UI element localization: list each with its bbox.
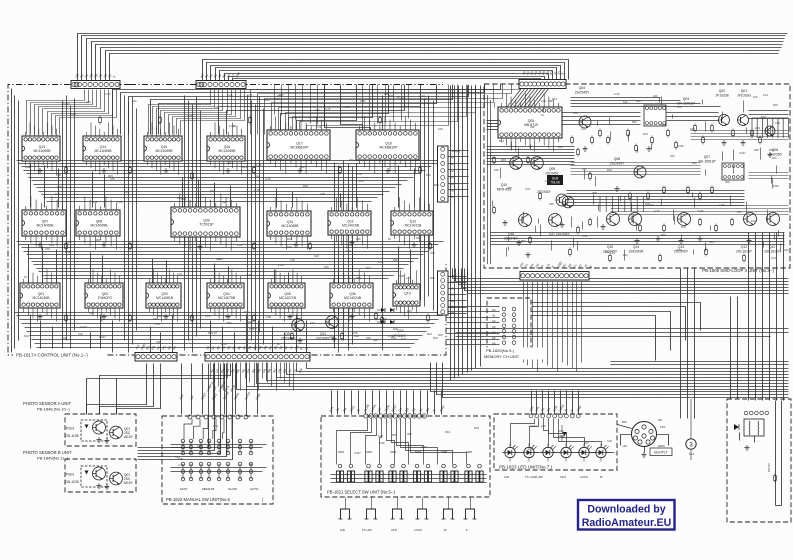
svg-text:C14: C14 [255, 174, 260, 178]
svg-text:RadioAmateur.EU: RadioAmateur.EU [582, 517, 671, 529]
svg-text:100: 100 [132, 99, 137, 103]
svg-text:SW1: SW1 [338, 450, 345, 454]
connector J05 control unit right B [438, 271, 449, 315]
svg-text:1815Y: 1815Y [124, 435, 134, 439]
svg-text:10K: 10K [494, 168, 499, 172]
svg-text:R07: R07 [389, 94, 394, 98]
svg-text:R19: R19 [433, 336, 438, 340]
svg-text:220: 220 [558, 145, 563, 149]
svg-text:4.7K: 4.7K [254, 188, 260, 192]
unit boundary PB-1817A control unit [8, 85, 446, 356]
LED D03 [543, 444, 556, 462]
svg-text:220: 220 [725, 180, 730, 184]
svg-text:R31: R31 [607, 168, 612, 172]
svg-text:220: 220 [359, 179, 364, 183]
svg-text:Q14: Q14 [633, 245, 639, 249]
svg-text:33P: 33P [549, 202, 554, 206]
svg-text:220: 220 [653, 94, 658, 98]
svg-text:+5V(M): +5V(M) [450, 149, 460, 153]
svg-text:PS01: PS01 [66, 473, 74, 477]
wire connector drops to row1 left ICs [27, 90, 245, 135]
IC Q10 MC14069B [267, 197, 311, 249]
IC Q11 MC14016B [328, 197, 371, 248]
svg-text:R19: R19 [210, 189, 215, 193]
transistor Q16 2SC945Y second [556, 194, 568, 206]
svg-text:47K: 47K [78, 332, 83, 336]
svg-text:2SK29GR: 2SK29GR [629, 250, 644, 254]
svg-text:PB-1823 LED UNIT(No.7 ): PB-1823 LED UNIT(No.7 ) [499, 465, 553, 470]
svg-text:C22: C22 [373, 338, 378, 342]
svg-text:R31: R31 [108, 174, 113, 178]
labels below LED unit [504, 475, 603, 479]
transistor Q13 2SC945Y [678, 213, 691, 226]
svg-text:MC14069B: MC14069B [219, 149, 237, 153]
svg-text:C09: C09 [71, 112, 76, 116]
svg-text:A0: A0 [492, 308, 496, 312]
wire stubs into row2 ICs [31, 164, 415, 208]
svg-text:MC14024B: MC14024B [344, 296, 362, 300]
pin labels connector J05 [450, 274, 455, 315]
svg-text:A2: A2 [450, 169, 454, 173]
connector pins memory unit column B [512, 307, 516, 344]
svg-text:47K: 47K [388, 334, 393, 338]
svg-text:C14: C14 [155, 322, 160, 326]
wire bundle below row3 [15, 313, 447, 348]
IC Q01 MC14049B [20, 269, 60, 321]
svg-text:A3: A3 [492, 325, 496, 329]
svg-text:FST: FST [660, 425, 666, 429]
svg-text:SW6: SW6 [466, 450, 473, 454]
svg-text:10K: 10K [57, 185, 62, 189]
svg-text:MC14071B: MC14071B [279, 296, 297, 300]
wire right accessory verticals [740, 401, 782, 506]
svg-text:1K: 1K [422, 94, 425, 98]
svg-text:2SC945Y: 2SC945Y [610, 162, 625, 166]
svg-text:100: 100 [310, 321, 315, 325]
svg-text:R07: R07 [773, 103, 778, 107]
svg-text:1815Y: 1815Y [124, 481, 134, 485]
resistor right accessory [774, 474, 777, 483]
svg-text:A9: A9 [450, 286, 454, 290]
svg-text:R12: R12 [24, 334, 29, 338]
svg-text:100: 100 [670, 154, 675, 158]
pin labels connector J04 [450, 149, 460, 199]
svg-text:1K: 1K [401, 96, 404, 100]
svg-text:R19: R19 [208, 331, 213, 335]
component value labels scatter [24, 92, 789, 467]
svg-text:A/R: A/R [504, 475, 509, 479]
svg-text:33P: 33P [157, 314, 162, 318]
svg-text:MC14011B: MC14011B [405, 223, 422, 227]
switches manual SW unit row 2 [181, 462, 253, 481]
ground symbols photo B [104, 484, 109, 489]
svg-text:0.047: 0.047 [354, 451, 361, 455]
connector J02 control unit top [196, 81, 246, 89]
svg-text:SW4: SW4 [415, 450, 422, 454]
label PB-1817A control unit background [13, 349, 106, 359]
svg-text:R07: R07 [761, 115, 766, 119]
svg-text:C14: C14 [610, 251, 615, 255]
svg-text:PB-1809 SMO-LOOP II UNIT (No: PB-1809 SMO-LOOP II UNIT (No.3--) [702, 268, 774, 273]
svg-text:0.01: 0.01 [177, 272, 183, 276]
svg-text:TC5013P: TC5013P [199, 222, 214, 226]
svg-text:0.047: 0.047 [221, 342, 228, 346]
svg-text:560: 560 [430, 276, 435, 280]
IC Q14 MC14069B [83, 122, 121, 174]
svg-text:F: F [466, 528, 468, 532]
svg-text:33P: 33P [222, 200, 227, 204]
connector J06 control unit bottom-left [135, 353, 177, 362]
svg-text:ON-1108: ON-1108 [65, 434, 79, 438]
wire manual SW unit feeds [182, 364, 258, 415]
svg-text:2SC945Y: 2SC945Y [575, 91, 590, 95]
wire LED unit feeds [532, 391, 579, 415]
svg-text:C09: C09 [56, 173, 61, 177]
svg-text:10K: 10K [86, 100, 91, 104]
wire right horizontal pair [611, 362, 789, 365]
svg-text:4.7K: 4.7K [406, 276, 412, 280]
svg-text:R12: R12 [623, 253, 628, 257]
diode photo B [85, 471, 89, 475]
svg-text:4.7K: 4.7K [187, 114, 193, 118]
svg-text:102: 102 [751, 219, 756, 223]
svg-text:A8: A8 [450, 280, 454, 284]
svg-text:R12: R12 [499, 139, 504, 143]
wire connector J05 stubs [449, 277, 467, 314]
svg-text:R19: R19 [445, 430, 450, 434]
svg-text:4.7K: 4.7K [325, 107, 331, 111]
photo interrupter PS01 unit A [65, 420, 107, 441]
svg-text:2.2K: 2.2K [265, 177, 271, 181]
wire labels below connector J07 [209, 367, 303, 373]
svg-text:Q01: Q01 [741, 89, 748, 93]
resistor comb mid SMO [600, 196, 643, 212]
svg-text:+5V: +5V [450, 274, 455, 278]
LED D04 [561, 444, 574, 462]
unit boundary PB-1823 LED unit [494, 414, 617, 470]
svg-text:6.8K: 6.8K [773, 184, 779, 188]
svg-text:102: 102 [415, 158, 420, 162]
svg-text:0.047: 0.047 [530, 424, 537, 428]
pin labels connector J08 [518, 260, 593, 268]
transistor Q12 2SC1815Y [744, 213, 757, 226]
svg-text:0.01: 0.01 [65, 250, 71, 254]
transistor photo A PS01 [93, 421, 106, 434]
transformer T01 [744, 419, 764, 436]
voltage regulator SLM 7NL08 [547, 175, 563, 185]
svg-text:SW3: SW3 [390, 450, 397, 454]
wire select SW interior [331, 419, 487, 483]
svg-text:R31: R31 [287, 237, 292, 241]
svg-text:BLK/PLT: BLK/PLT [654, 451, 667, 455]
svg-text:AUTO: AUTO [250, 487, 259, 491]
svg-text:220: 220 [784, 248, 789, 252]
IC Q15 MC14069B [144, 122, 182, 174]
svg-text:PB-1817A CONTROL UNIT (No.1--: PB-1817A CONTROL UNIT (No.1--) [16, 353, 88, 358]
svg-text:10K: 10K [438, 127, 443, 131]
svg-text:R31: R31 [264, 98, 269, 102]
IC Q05 MB-8719 [498, 93, 562, 151]
svg-text:Q08: Q08 [614, 157, 621, 161]
svg-text:4.7K: 4.7K [105, 92, 111, 96]
svg-text:VFO: VFO [560, 475, 567, 479]
svg-text:102: 102 [623, 100, 628, 104]
ground symbols photo A [104, 438, 109, 443]
svg-text:CP-5V: CP-5V [767, 463, 771, 472]
svg-text:UP: UP [658, 418, 662, 422]
svg-text:R07: R07 [677, 248, 682, 252]
diode photo A [85, 425, 89, 429]
svg-text:Q07: Q07 [704, 155, 711, 159]
svg-text:2.2K: 2.2K [278, 263, 284, 267]
connector J01 control unit top-left [71, 81, 120, 89]
svg-text:4.7K: 4.7K [246, 273, 252, 277]
transistor Q20 2SC945Y [292, 319, 305, 332]
pin labels connector J03 [521, 70, 564, 76]
svg-text:TX--HUR--RX: TX--HUR--RX [525, 475, 543, 479]
wire memory unit fan [447, 307, 500, 345]
svg-text:R31: R31 [681, 225, 686, 229]
wire SMO interior nets 2 [493, 97, 789, 261]
svg-text:33P: 33P [507, 186, 512, 190]
svg-text:Q19: Q19 [404, 291, 411, 295]
wire LED unit interior [503, 419, 615, 453]
svg-text:R31: R31 [366, 266, 371, 270]
svg-text:MCM6810P: MCM6810P [380, 145, 399, 149]
IC Q07 SN-16913P [722, 163, 744, 180]
svg-text:33P: 33P [407, 432, 412, 436]
svg-text:R19: R19 [501, 158, 506, 162]
transistor Q09 2SC945Y [531, 157, 544, 170]
wire secondary bottom bus [431, 363, 789, 398]
label memory unit name background [483, 348, 543, 360]
svg-text:47K: 47K [290, 258, 295, 262]
svg-text:C09: C09 [320, 192, 325, 196]
svg-text:2SC1815Y: 2SC1815Y [736, 250, 753, 254]
svg-text:C09: C09 [360, 99, 365, 103]
svg-text:C09: C09 [266, 315, 271, 319]
svg-text:C14: C14 [181, 197, 186, 201]
wire mid-right horizontals [456, 303, 789, 361]
unit boundary photo sensor B unit [65, 459, 136, 492]
svg-text:R12: R12 [434, 183, 439, 187]
transistor Q01 JF1033G [738, 115, 749, 126]
svg-text:A1: A1 [450, 162, 454, 166]
svg-text:102: 102 [605, 250, 610, 254]
ground DIN [641, 452, 646, 457]
svg-text:PHOTO SENSOR B UNIT: PHOTO SENSOR B UNIT [23, 450, 72, 455]
svg-text:R19: R19 [303, 184, 308, 188]
unit boundary photo sensor A unit [65, 414, 136, 446]
connector pins memory unit column A [502, 307, 506, 344]
svg-text:R07: R07 [438, 333, 443, 337]
svg-text:4.7K: 4.7K [275, 158, 281, 162]
svg-text:R12: R12 [244, 310, 249, 314]
pin labels connector J07 [205, 344, 309, 350]
svg-text:1K: 1K [397, 95, 400, 99]
pin labels connector J02 [199, 71, 241, 78]
label plate BLK/PLT [650, 448, 672, 456]
wire main bottom horizontal bus [237, 363, 789, 390]
svg-text:Q03: Q03 [683, 97, 690, 101]
transistor Q10 MPS-A13 [510, 157, 523, 170]
svg-text:100: 100 [573, 111, 578, 115]
transistor photo B PS01 [93, 467, 106, 480]
svg-text:PHOTO SENSOR A UNIT: PHOTO SENSOR A UNIT [23, 401, 72, 406]
svg-text:SW5: SW5 [441, 450, 448, 454]
svg-text:10K: 10K [353, 331, 358, 335]
svg-text:100: 100 [772, 156, 777, 160]
transistor Q18 2SC945Y [519, 214, 532, 227]
svg-text:6.8K: 6.8K [545, 179, 551, 183]
svg-text:Q19: Q19 [397, 329, 404, 333]
svg-text:C09: C09 [399, 274, 404, 278]
svg-text:220: 220 [345, 105, 350, 109]
svg-text:2SC945Y: 2SC945Y [545, 172, 560, 176]
svg-text:AB: AB [450, 299, 454, 303]
svg-text:2.2K: 2.2K [124, 190, 130, 194]
svg-text:A5: A5 [492, 336, 496, 340]
svg-text:10K: 10K [416, 236, 421, 240]
svg-text:C14: C14 [763, 93, 768, 97]
svg-text:0.047: 0.047 [99, 335, 106, 339]
unit boundary PB-1825 memory ch unit [487, 298, 531, 349]
svg-text:MC14069B: MC14069B [95, 149, 113, 153]
svg-text:C14: C14 [709, 240, 714, 244]
svg-text:4.7K: 4.7K [719, 203, 725, 207]
transistor Q14 2SK29GR [629, 213, 642, 226]
svg-text:R12: R12 [228, 161, 233, 165]
svg-text:R12: R12 [769, 148, 774, 152]
svg-text:102: 102 [753, 95, 758, 99]
svg-text:C22: C22 [607, 439, 612, 443]
IC Q06 MC14024B [330, 269, 373, 321]
IC Q08 MC14069B [76, 196, 120, 249]
photo sensor feed labels [205, 381, 236, 392]
wire bundle between IC row2 and row3 [17, 242, 444, 279]
svg-text:100: 100 [690, 127, 695, 131]
IC Q19 uPC15IC pins [393, 270, 420, 319]
diode D07 LED unit [560, 425, 568, 441]
svg-text:R07: R07 [216, 257, 221, 261]
svg-text:4.7K: 4.7K [247, 93, 253, 97]
ground symbols SMO unit [582, 146, 587, 151]
svg-text:1K: 1K [277, 342, 280, 346]
svg-text:6.8K: 6.8K [698, 209, 704, 213]
svg-text:33P: 33P [393, 258, 398, 262]
resistor comb right edge SMO [752, 118, 788, 138]
svg-text:2.2K: 2.2K [229, 124, 235, 128]
wire bundle between IC row1 and row2 [17, 161, 444, 202]
svg-text:Q09: Q09 [549, 167, 555, 171]
wire manual SW interior [171, 445, 267, 472]
svg-text:33P: 33P [592, 191, 597, 195]
svg-text:560: 560 [89, 311, 94, 315]
connector pins manual SW unit [188, 415, 248, 419]
diode right accessory [734, 424, 739, 430]
DIN connector MIC jack [632, 422, 657, 447]
IC Q07 MC14069B [22, 196, 66, 249]
svg-text:MC14069B: MC14069B [37, 223, 55, 227]
svg-text:MEMORY CH.UNIT: MEMORY CH.UNIT [484, 354, 520, 359]
transistor Q15 2SC945Y [607, 213, 620, 226]
svg-text:100: 100 [356, 237, 361, 241]
svg-text:R19: R19 [356, 276, 361, 280]
IC Q02 F4040PC [85, 269, 123, 321]
unit boundary PB-1809 SMO-LOOP II unit [484, 84, 790, 268]
svg-text:PB-1821 SELECT SW UNIT (No.5: PB-1821 SELECT SW UNIT (No.5--) [327, 490, 396, 495]
svg-text:JF10338: JF10338 [715, 94, 728, 98]
svg-text:C14: C14 [175, 455, 180, 459]
svg-text:33P: 33P [530, 125, 535, 129]
diode D02 [377, 320, 385, 324]
wire bundle from SMO unit bottom [453, 269, 789, 294]
svg-text:2.2K: 2.2K [356, 172, 362, 176]
svg-text:1K: 1K [214, 331, 217, 335]
svg-text:PL1: PL1 [689, 452, 695, 456]
svg-text:MEDIUM: MEDIUM [202, 487, 215, 491]
transistor Q21 2SC945Y [326, 316, 339, 329]
IC Q09 TC5013P [171, 193, 240, 250]
svg-text:0.01: 0.01 [755, 126, 761, 130]
svg-text:0.01: 0.01 [316, 125, 322, 129]
svg-text:C22: C22 [25, 165, 30, 169]
transistor Q01 2SC1815Y (photo B) [110, 472, 123, 485]
svg-text:102: 102 [93, 200, 98, 204]
svg-text:1K: 1K [388, 237, 391, 241]
svg-text:560: 560 [521, 239, 526, 243]
svg-text:10K: 10K [324, 265, 329, 269]
wire fan into row 1 ICs [113, 85, 501, 135]
svg-text:A6: A6 [450, 195, 454, 199]
svg-text:FAST: FAST [180, 487, 188, 491]
svg-text:4.7K: 4.7K [256, 163, 262, 167]
svg-text:MC14075B: MC14075B [218, 296, 236, 300]
pin labels connector J06 [134, 342, 177, 350]
ground right accessory [744, 445, 749, 450]
wire drops to bottom connector [31, 315, 307, 353]
svg-text:AA: AA [450, 293, 454, 297]
svg-text:A4: A4 [492, 330, 496, 334]
svg-text:MCM6810P: MCM6810P [291, 145, 310, 149]
manual SW feed pin labels [178, 391, 262, 401]
svg-text:MC14049B: MC14049B [33, 296, 51, 300]
LED D02 [524, 444, 537, 462]
svg-text:220: 220 [315, 108, 320, 112]
svg-text:4.7K: 4.7K [654, 209, 660, 213]
transistor Q06 JF10350 [765, 126, 775, 136]
wire left margin verticals [12, 89, 19, 353]
svg-text:10K: 10K [426, 173, 431, 177]
svg-text:C14: C14 [581, 127, 586, 131]
svg-text:F4040PC: F4040PC [98, 296, 113, 300]
svg-text:Q11: Q11 [769, 245, 775, 249]
svg-text:100: 100 [582, 167, 587, 171]
svg-text:560: 560 [227, 321, 232, 325]
IC Q05 MC14071B [268, 269, 305, 321]
LED feed pin labels [528, 403, 582, 412]
wire connector J04 stubs [449, 151, 469, 197]
svg-text:R07: R07 [96, 238, 101, 242]
wire vertical drops to row1 [275, 85, 409, 127]
svg-text:A4: A4 [450, 182, 454, 186]
ground symbols control unit [37, 168, 42, 173]
pin labels memory unit [492, 308, 496, 346]
IC Q04 MC14075B [207, 269, 244, 321]
svg-text:PB-1849(No.11--): PB-1849(No.11--) [37, 456, 69, 461]
svg-text:Q04: Q04 [579, 86, 586, 90]
svg-text:1K: 1K [541, 113, 544, 117]
